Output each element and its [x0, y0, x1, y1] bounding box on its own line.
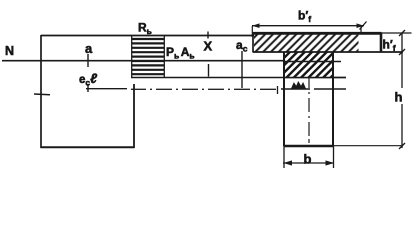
svg-text:a: a: [85, 41, 93, 56]
svg-text:X: X: [204, 39, 213, 54]
svg-text:N: N: [5, 44, 14, 58]
svg-text:h: h: [395, 90, 403, 105]
svg-text:b: b: [304, 152, 312, 167]
